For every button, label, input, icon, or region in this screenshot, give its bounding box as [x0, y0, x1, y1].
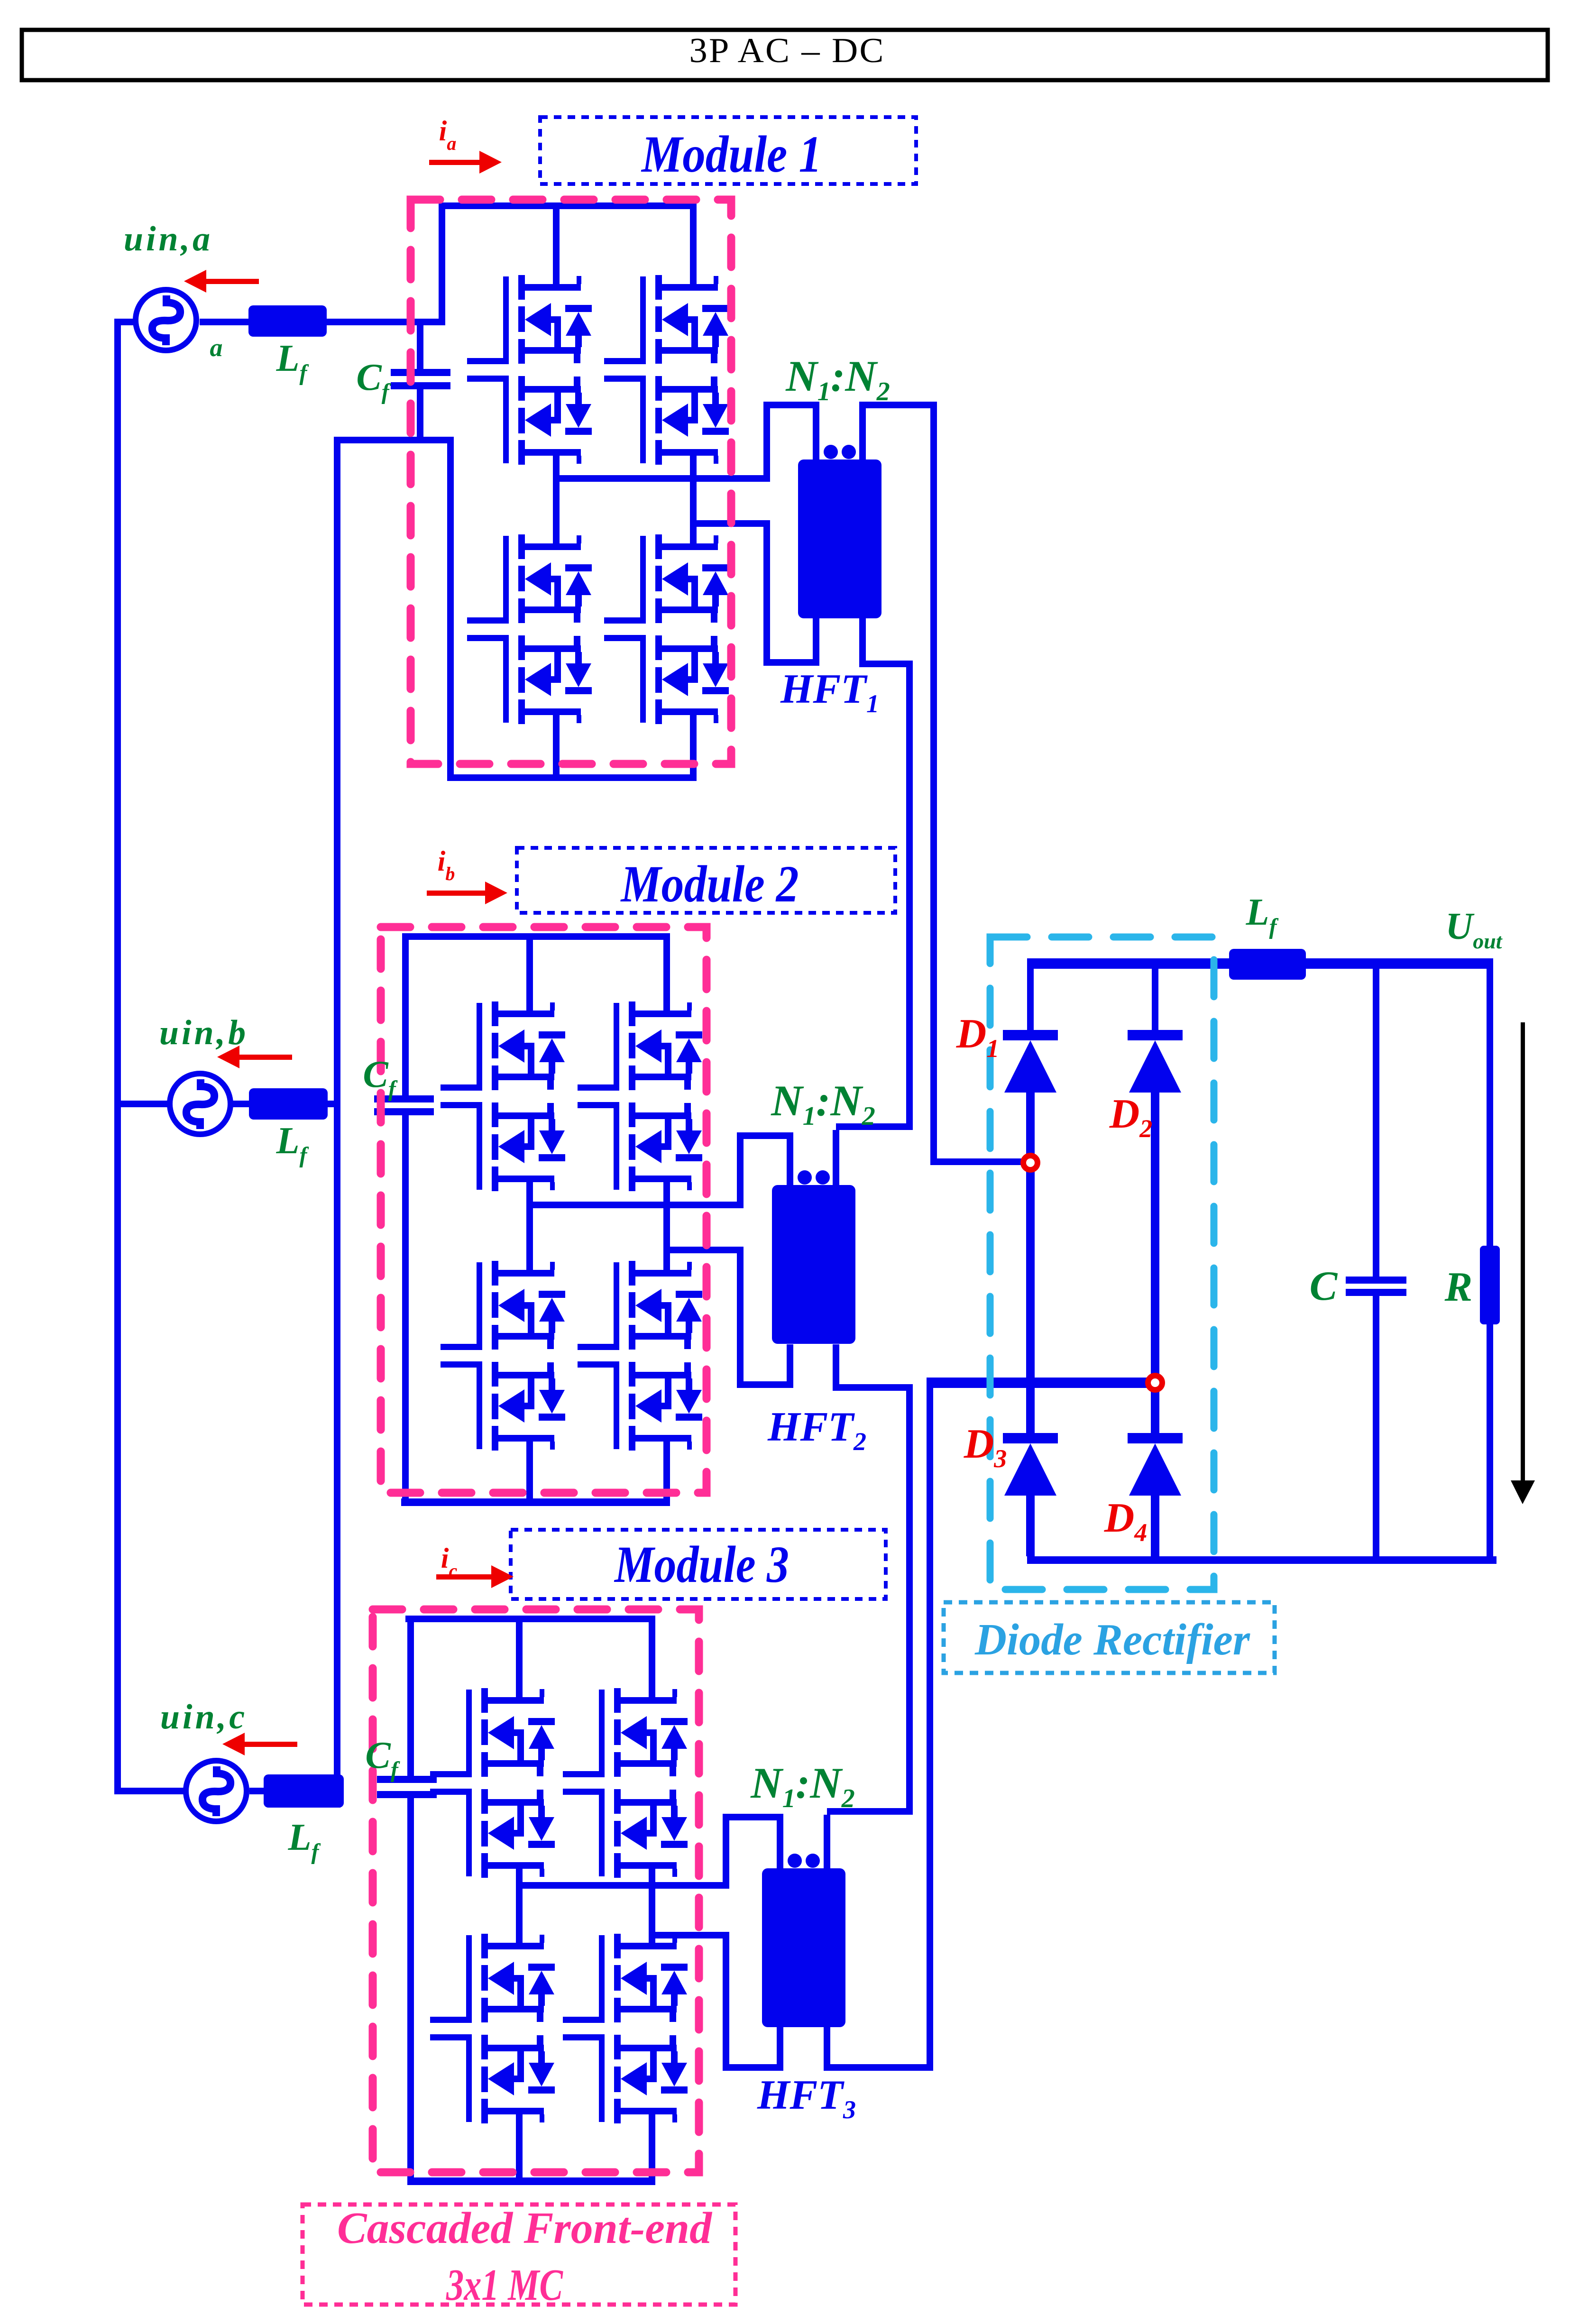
svg-text:N1:N2: N1:N2 [771, 1076, 875, 1131]
svg-text:uin,b: uin,b [159, 1013, 248, 1052]
svg-text:Module 1: Module 1 [641, 125, 822, 183]
svg-text:HFT3: HFT3 [757, 2072, 856, 2124]
svg-text:Module 2: Module 2 [620, 855, 799, 913]
svg-text:Diode Rectifier: Diode Rectifier [974, 1615, 1250, 1664]
svg-text:N1:N2: N1:N2 [785, 352, 890, 406]
svg-text:3x1 MC: 3x1 MC [446, 2260, 563, 2310]
svg-text:uin,a: uin,a [124, 220, 213, 258]
svg-text:N1:N2: N1:N2 [750, 1759, 855, 1813]
svg-text:3P AC – DC: 3P AC – DC [689, 31, 885, 70]
svg-text:uin,c: uin,c [160, 1698, 248, 1736]
svg-text:HFT2: HFT2 [767, 1404, 866, 1456]
svg-text:a: a [210, 333, 223, 362]
svg-text:HFT1: HFT1 [780, 666, 879, 718]
svg-text:Cascaded Front-end: Cascaded Front-end [337, 2204, 713, 2253]
svg-text:Module 3: Module 3 [614, 1535, 789, 1593]
svg-text:C: C [1310, 1263, 1338, 1309]
svg-text:R: R [1444, 1264, 1473, 1310]
